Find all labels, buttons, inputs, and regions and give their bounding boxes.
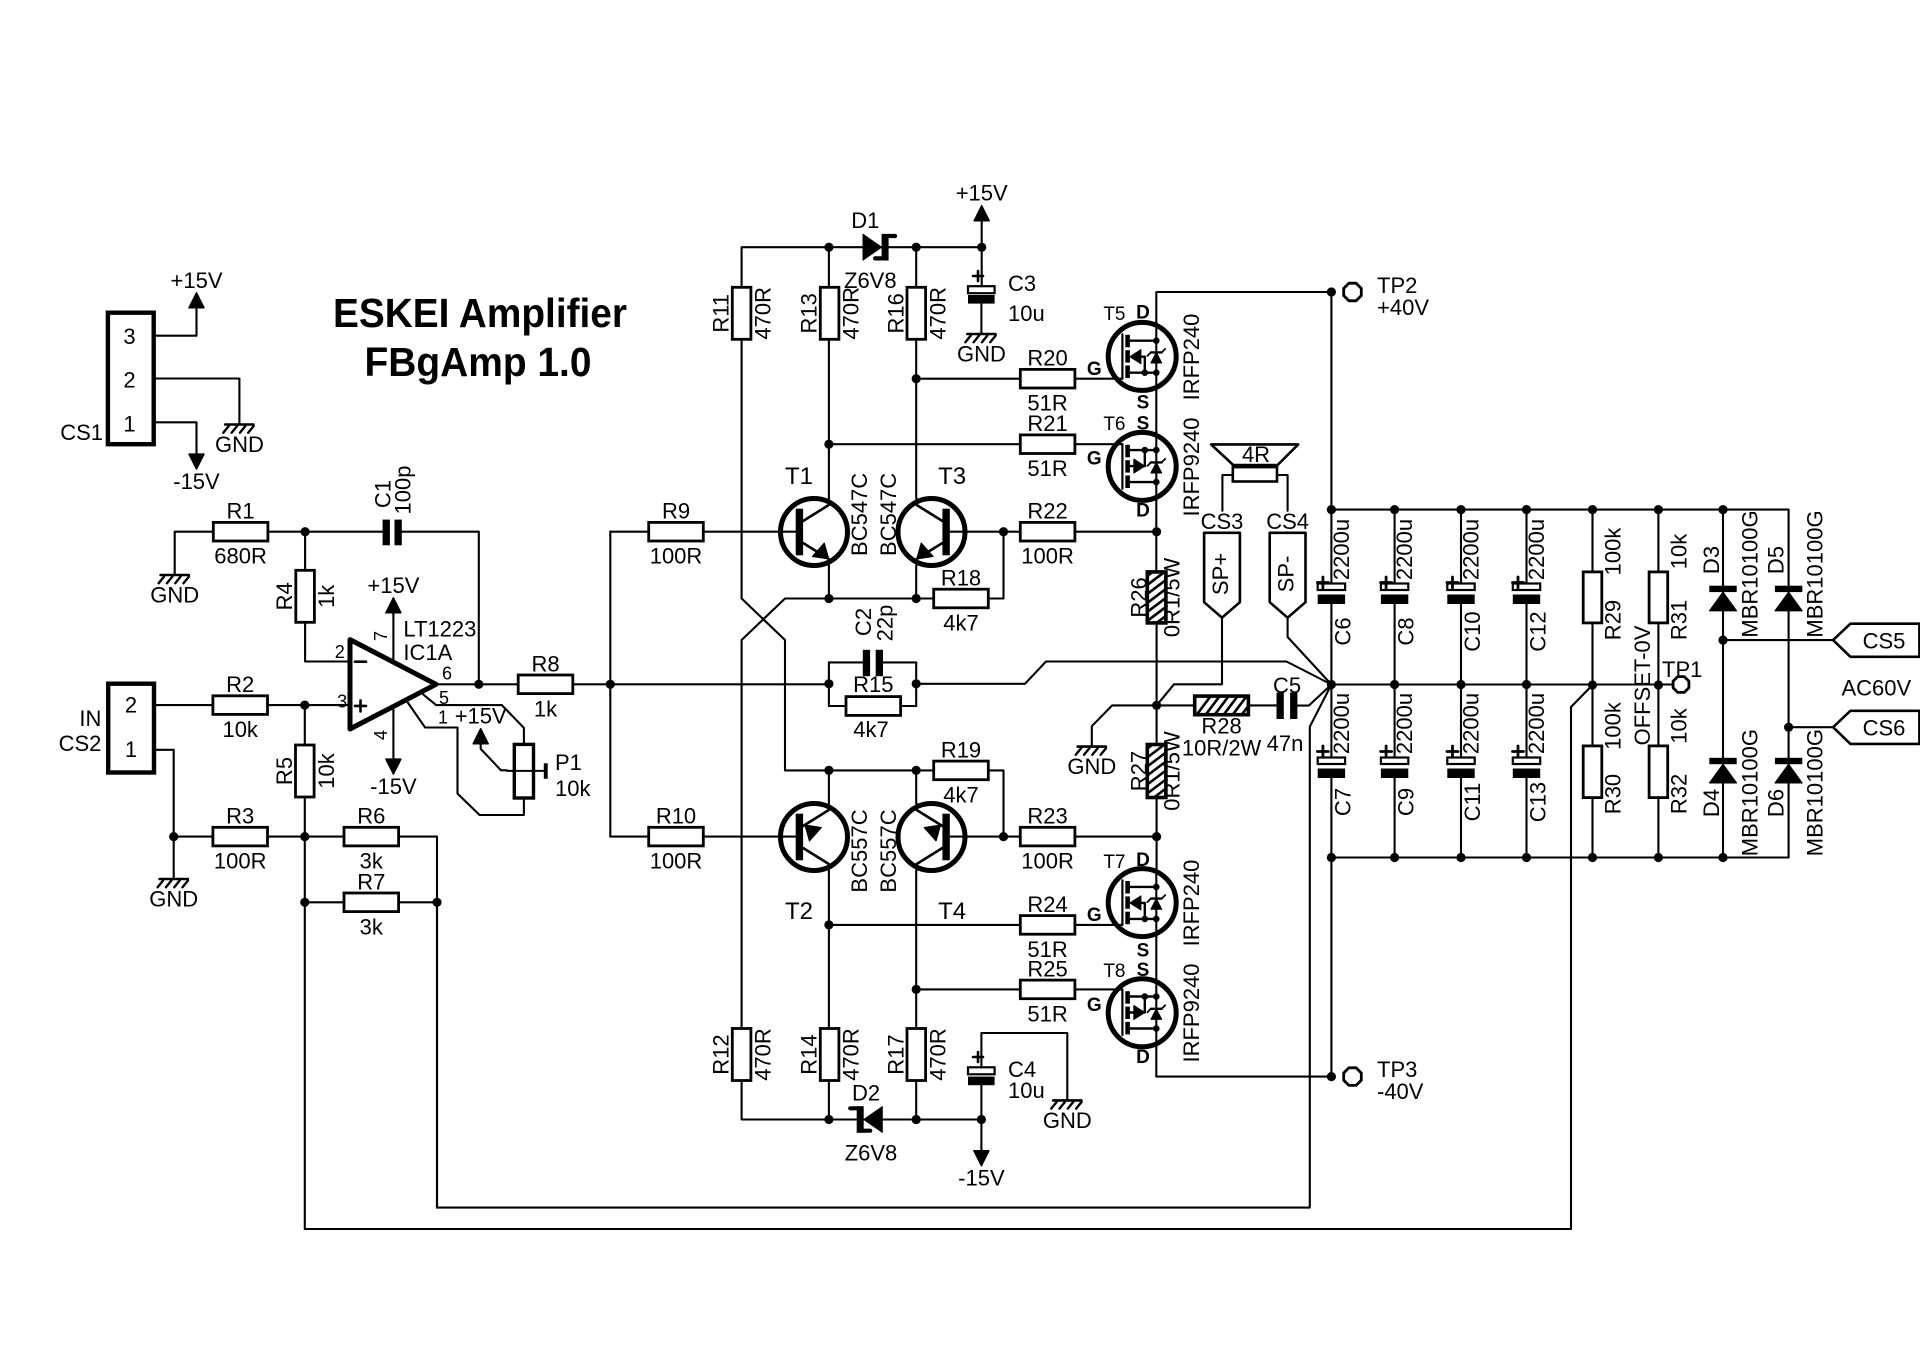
junction TP2 dot xyxy=(1327,287,1336,296)
resistor R5 xyxy=(272,745,339,797)
junction C7 bottom xyxy=(1327,853,1336,862)
svg-text:R23: R23 xyxy=(1027,804,1067,829)
svg-text:R32: R32 xyxy=(1666,774,1691,814)
junction C6 mid xyxy=(1327,680,1336,689)
svg-text:2200u: 2200u xyxy=(1329,693,1354,754)
svg-text:D: D xyxy=(1136,1047,1150,1068)
svg-text:OFFSET-0V: OFFSET-0V xyxy=(1630,625,1655,745)
wire T4 lower lead xyxy=(915,871,917,1029)
svg-text:D3: D3 xyxy=(1699,546,1724,574)
junction node L xyxy=(824,766,833,775)
wire rail to C3 xyxy=(981,247,983,286)
svg-text:100R: 100R xyxy=(1021,849,1074,874)
wire speaker right lead xyxy=(1277,475,1288,511)
svg-text:CS4: CS4 xyxy=(1266,509,1309,534)
test point TP3 xyxy=(1344,1057,1424,1104)
svg-text:100k: 100k xyxy=(1601,701,1626,750)
junction C10 top xyxy=(1456,505,1465,514)
svg-text:2: 2 xyxy=(335,642,345,662)
junction node O xyxy=(824,679,833,688)
wire R14 bottom xyxy=(828,1081,830,1120)
svg-text:G: G xyxy=(1087,359,1102,380)
svg-text:BC547C: BC547C xyxy=(847,473,872,556)
svg-text:CS6: CS6 xyxy=(1863,716,1906,741)
junction node J xyxy=(912,594,921,603)
junction node I xyxy=(824,594,833,603)
label BC547C T1 xyxy=(847,473,872,556)
capacitor C5 xyxy=(1267,673,1304,756)
wire +40V bus xyxy=(1331,509,1788,511)
wire SP+ to output junction xyxy=(1157,618,1222,706)
junction rail R17 xyxy=(912,1115,921,1124)
wire C3 to GND xyxy=(980,304,982,333)
wire node D to R3 xyxy=(174,836,213,838)
svg-text:C3: C3 xyxy=(1008,271,1036,296)
wire R18 right up xyxy=(989,532,1004,599)
wire node F vertical xyxy=(609,532,611,837)
op-amp U1 IC1A LT1223 xyxy=(335,616,477,740)
resistor R29 xyxy=(1583,527,1625,641)
svg-text:2200u: 2200u xyxy=(1524,519,1549,580)
svg-text:MBR10100G: MBR10100G xyxy=(1803,729,1828,856)
resistor R12 xyxy=(709,1028,776,1081)
svg-text:LT1223: LT1223 xyxy=(403,616,476,641)
svg-text:2200u: 2200u xyxy=(1524,693,1549,754)
resistor R24 xyxy=(1020,892,1075,962)
junction R29 bus xyxy=(1588,505,1597,514)
svg-text:R22: R22 xyxy=(1027,499,1067,524)
svg-text:2200u: 2200u xyxy=(1329,519,1354,580)
wire R7 right lead xyxy=(399,901,437,903)
wire R29 top xyxy=(1591,510,1593,572)
svg-text:R4: R4 xyxy=(272,582,297,610)
label AC60V xyxy=(1841,676,1911,701)
svg-text:1: 1 xyxy=(123,412,135,437)
svg-text:G: G xyxy=(1087,995,1102,1016)
wire node B to R5 xyxy=(304,705,306,745)
capacitor C10 2200u xyxy=(1447,510,1485,685)
wire R4 to op-amp pin2 xyxy=(305,623,349,662)
svg-text:GND: GND xyxy=(1067,754,1116,779)
wire collector row xyxy=(785,769,933,771)
svg-text:C8: C8 xyxy=(1394,617,1419,645)
svg-text:C5: C5 xyxy=(1273,673,1301,698)
wire R21 wire xyxy=(829,443,1020,445)
wire T2 collector xyxy=(828,770,830,803)
junction rail C4 xyxy=(977,1115,986,1124)
wire emitter row xyxy=(785,597,933,599)
svg-text:BC557C: BC557C xyxy=(847,809,872,892)
svg-text:FBgAmp 1.0: FBgAmp 1.0 xyxy=(365,339,592,385)
wire upper feedback riser xyxy=(436,902,438,1207)
svg-text:R8: R8 xyxy=(531,651,559,676)
capacitor C4 xyxy=(968,1052,1045,1103)
resistor R19 xyxy=(934,737,989,807)
ground xyxy=(957,334,1006,367)
svg-text:SP+: SP+ xyxy=(1208,553,1233,595)
wire CS1 pin2 to GND xyxy=(154,379,240,424)
svg-text:G: G xyxy=(1087,449,1102,470)
capacitor C7 2200u xyxy=(1317,685,1355,858)
junction C9 bottom xyxy=(1390,853,1399,862)
ground xyxy=(1043,1100,1092,1133)
wire R16 to T3 collector xyxy=(915,340,917,499)
resistor R8 xyxy=(518,651,573,721)
svg-text:2200u: 2200u xyxy=(1392,693,1417,754)
wire C2 R15 right xyxy=(915,662,917,706)
svg-text:51R: 51R xyxy=(1027,1001,1067,1026)
svg-text:+15V: +15V xyxy=(367,573,419,598)
junction node T xyxy=(1152,832,1161,841)
wire C4 top to GND xyxy=(981,1033,1067,1099)
resistor R17 xyxy=(883,1028,950,1081)
wire R15 branch b xyxy=(901,705,917,707)
junction R31 bus xyxy=(1654,505,1663,514)
wire node C down xyxy=(304,837,306,1229)
junction node D xyxy=(169,832,178,841)
transistor T2 BC557C xyxy=(781,804,848,926)
junction node H xyxy=(912,374,921,383)
svg-text:IC1A: IC1A xyxy=(403,640,452,665)
svg-text:D6: D6 xyxy=(1764,789,1789,817)
svg-text:S: S xyxy=(1137,960,1150,981)
wire T5 source to T6 source xyxy=(1155,390,1157,432)
svg-text:IRFP240: IRFP240 xyxy=(1179,860,1204,947)
wire P1 wiper +15V wire xyxy=(481,744,507,771)
resistor R21 xyxy=(1020,411,1075,481)
wire R23 to output column xyxy=(1075,836,1157,838)
svg-text:C10: C10 xyxy=(1460,611,1485,651)
resistor R22 xyxy=(1020,499,1075,569)
wire 0V mid bus xyxy=(1331,683,1672,685)
power -15V xyxy=(173,454,220,494)
capacitor C6 2200u xyxy=(1317,510,1355,685)
svg-text:1: 1 xyxy=(125,737,137,762)
junction node G xyxy=(824,440,833,449)
junction C10 mid xyxy=(1456,680,1465,689)
svg-text:Z6V8: Z6V8 xyxy=(845,1141,898,1166)
wire R27 to node T xyxy=(1156,798,1158,869)
wire op-amp pin5 to P1 top xyxy=(421,693,524,745)
label OFFSET-0V xyxy=(1630,625,1655,745)
capacitor C8 2200u xyxy=(1381,510,1419,685)
wire R31 top xyxy=(1657,510,1659,572)
wire T7 source to T8 source xyxy=(1155,937,1157,979)
svg-text:T5: T5 xyxy=(1103,304,1125,325)
svg-text:D4: D4 xyxy=(1699,789,1724,817)
wire R11 to T2 T4 collectors xyxy=(742,340,785,770)
svg-text:+15V: +15V xyxy=(956,181,1008,206)
junction node S xyxy=(1152,527,1161,536)
svg-text:2200u: 2200u xyxy=(1392,519,1417,580)
transistor T7 IRFP240 xyxy=(1087,850,1176,962)
junction D3 busb xyxy=(1718,853,1727,862)
svg-text:T4: T4 xyxy=(938,898,966,925)
wire op-amp pin1 to P1 bottom xyxy=(406,700,524,815)
junction node K xyxy=(999,527,1008,536)
wire C5 to node xyxy=(1297,685,1331,706)
svg-text:C7: C7 xyxy=(1330,788,1355,816)
svg-text:R5: R5 xyxy=(272,757,297,785)
ground xyxy=(1067,747,1116,780)
svg-text:D: D xyxy=(1136,501,1150,522)
svg-text:R17: R17 xyxy=(883,1034,908,1074)
svg-text:7: 7 xyxy=(371,631,391,641)
svg-text:C11: C11 xyxy=(1460,783,1485,822)
label IRFP240 T7 xyxy=(1179,860,1204,947)
wire long bottom feedback xyxy=(305,685,1593,1229)
wire SP- to output node xyxy=(1288,618,1332,685)
svg-text:4: 4 xyxy=(371,730,391,740)
wire R19 right down xyxy=(989,770,1004,836)
potentiometer P1 xyxy=(507,744,591,801)
junction C12 top xyxy=(1522,505,1531,514)
svg-text:C12: C12 xyxy=(1526,611,1551,651)
svg-text:T3: T3 xyxy=(938,463,966,490)
flag CS5 xyxy=(1833,624,1919,657)
svg-text:-15V: -15V xyxy=(173,469,220,494)
svg-text:CS5: CS5 xyxy=(1863,629,1906,654)
svg-text:IRFP9240: IRFP9240 xyxy=(1179,417,1204,516)
junction node M xyxy=(912,766,921,775)
svg-text:4R: 4R xyxy=(1242,442,1270,467)
capacitor C13 2200u xyxy=(1513,685,1551,858)
svg-text:IN: IN xyxy=(79,706,101,731)
junction C12 mid xyxy=(1522,680,1531,689)
transistor T5 IRFP240 xyxy=(1087,303,1176,414)
svg-text:100R: 100R xyxy=(1021,544,1074,569)
wire CS1 pin1 to -15V xyxy=(154,422,197,454)
junction C6 top xyxy=(1327,505,1336,514)
svg-text:R13: R13 xyxy=(797,293,822,333)
wire R25 wire xyxy=(916,988,1020,990)
wire R7 left lead xyxy=(305,901,344,903)
svg-text:R26: R26 xyxy=(1127,577,1152,617)
wire op-amp pin7 wire xyxy=(392,615,394,662)
wire to R10 xyxy=(610,836,648,838)
resistor R32 xyxy=(1649,707,1691,814)
svg-text:IRFP9240: IRFP9240 xyxy=(1179,963,1204,1062)
wire bottom rail xyxy=(742,1081,982,1120)
svg-text:R31: R31 xyxy=(1666,600,1691,640)
wire CS2 pin2 to R2 xyxy=(154,704,213,706)
zener diode D2 xyxy=(845,1081,898,1166)
wire R2 to op-amp pin3 xyxy=(268,704,350,706)
svg-text:T8: T8 xyxy=(1103,961,1125,982)
svg-text:S: S xyxy=(1137,393,1150,414)
transistor T8 IRFP9240 xyxy=(1087,960,1176,1068)
wire R32 bottom xyxy=(1657,798,1659,858)
title text xyxy=(333,290,627,385)
wire T3 emitter xyxy=(915,566,917,599)
junction R7 right junction xyxy=(432,898,441,907)
svg-text:D: D xyxy=(1136,303,1150,324)
wire R10 to T2 base xyxy=(703,836,795,838)
svg-text:10k: 10k xyxy=(1666,707,1691,743)
svg-text:T2: T2 xyxy=(785,898,813,925)
wire C2 branch xyxy=(829,661,863,663)
wire R17 bottom xyxy=(915,1081,917,1120)
wire T4 base to R23 xyxy=(949,836,1020,838)
zener diode D1 xyxy=(844,208,897,293)
label BC557C T2 xyxy=(847,809,872,892)
svg-text:22p: 22p xyxy=(873,605,898,642)
wire R21 to T6 gate xyxy=(1075,443,1123,445)
svg-text:R24: R24 xyxy=(1027,892,1067,917)
svg-text:470R: 470R xyxy=(925,1028,950,1081)
svg-text:R11: R11 xyxy=(709,294,734,333)
svg-text:T1: T1 xyxy=(785,463,813,490)
wire TP2 stub xyxy=(1330,292,1332,510)
power +15V xyxy=(956,181,1008,221)
svg-text:470R: 470R xyxy=(839,1028,864,1081)
resistor R23 xyxy=(1020,804,1075,874)
junction node F xyxy=(606,680,615,689)
svg-text:R16: R16 xyxy=(883,293,908,333)
wire GND to R1 xyxy=(175,532,214,574)
wire speaker left lead xyxy=(1222,475,1232,511)
junction R7 left junction xyxy=(300,898,309,907)
svg-text:TP1: TP1 xyxy=(1662,657,1702,682)
svg-text:1k: 1k xyxy=(534,696,558,721)
svg-text:10R/2W: 10R/2W xyxy=(1182,735,1262,760)
wire R9 to T1 base xyxy=(703,531,795,533)
connector CS2 xyxy=(59,684,154,773)
wire C1 to op-amp output xyxy=(402,532,479,685)
svg-text:S: S xyxy=(1137,941,1150,962)
svg-text:2: 2 xyxy=(123,368,135,393)
svg-text:R29: R29 xyxy=(1601,600,1626,640)
junction node P xyxy=(912,679,921,688)
wire R28 to C5 xyxy=(1248,704,1276,706)
svg-text:100R: 100R xyxy=(214,849,267,874)
svg-text:+15V: +15V xyxy=(455,704,507,729)
wire CS2 pin1 down xyxy=(154,750,174,837)
wire R20 to T5 gate xyxy=(1075,378,1123,380)
wire T4 collector xyxy=(915,770,917,803)
junction node R xyxy=(912,985,921,994)
flag CS3 SP+ xyxy=(1201,509,1244,618)
junction R32 busb xyxy=(1654,853,1663,862)
wire R1 to node A xyxy=(268,531,383,533)
wire T1 T3 emitters to R12 xyxy=(742,599,785,1029)
svg-text:CS1: CS1 xyxy=(60,420,103,445)
junction D3 bus xyxy=(1718,505,1727,514)
svg-text:2200u: 2200u xyxy=(1459,519,1484,580)
junction rail R14 xyxy=(824,1115,833,1124)
label BC557C T4 xyxy=(876,809,901,892)
svg-text:C13: C13 xyxy=(1526,782,1551,822)
wire R22 to output column xyxy=(1075,531,1157,533)
capacitor C1 xyxy=(371,466,416,546)
wire C4 bottom xyxy=(980,1085,982,1119)
svg-text:3: 3 xyxy=(337,692,347,712)
wire D3 column xyxy=(1722,510,1724,858)
wire R16 top xyxy=(915,247,917,286)
svg-text:470R: 470R xyxy=(751,1028,776,1081)
svg-text:R27: R27 xyxy=(1127,751,1152,791)
wire node to lower feedback xyxy=(437,685,1331,1208)
svg-text:-40V: -40V xyxy=(1377,1079,1424,1104)
svg-text:R10: R10 xyxy=(656,804,696,829)
svg-text:470R: 470R xyxy=(925,287,950,340)
svg-text:R19: R19 xyxy=(941,737,981,762)
diode D5 xyxy=(1764,510,1828,637)
svg-text:D2: D2 xyxy=(852,1081,880,1106)
resistor R7 xyxy=(344,869,399,939)
junction C11 bottom xyxy=(1456,853,1465,862)
wire T1 emitter xyxy=(828,566,830,599)
resistor R16 xyxy=(883,287,950,340)
test point TP2 xyxy=(1344,273,1430,320)
svg-text:GND: GND xyxy=(215,432,264,457)
wire R13 top xyxy=(828,247,830,286)
connector CS1 xyxy=(60,313,153,445)
svg-text:+40V: +40V xyxy=(1377,295,1429,320)
wire R15 branch xyxy=(829,705,846,707)
junction C13 bottom xyxy=(1522,853,1531,862)
svg-text:1: 1 xyxy=(438,708,448,728)
resistor R18 xyxy=(934,566,989,636)
junction node N xyxy=(999,832,1008,841)
resistor R14 xyxy=(797,1028,864,1081)
svg-text:-15V: -15V xyxy=(958,1166,1005,1191)
wire C2 branch b xyxy=(883,661,916,663)
power -15V xyxy=(370,759,417,799)
power +15V xyxy=(455,704,507,744)
resistor R6 xyxy=(344,804,399,874)
wire R24 wire xyxy=(829,924,1020,926)
resistor R2 xyxy=(213,672,268,742)
resistor R10 xyxy=(649,804,704,874)
svg-text:10u: 10u xyxy=(1008,1078,1045,1103)
junction rail R13 xyxy=(824,243,833,252)
junction node A xyxy=(301,527,310,536)
transistor T3 BC547C xyxy=(898,463,966,566)
svg-text:100R: 100R xyxy=(650,544,703,569)
junction rail R16 xyxy=(912,243,921,252)
junction node Q xyxy=(824,920,833,929)
svg-text:AC60V: AC60V xyxy=(1841,676,1911,701)
resistor R20 xyxy=(1020,346,1075,416)
resistor R15 xyxy=(846,672,901,742)
junction C8 top xyxy=(1390,505,1399,514)
diode D3 xyxy=(1699,510,1763,637)
svg-text:R25: R25 xyxy=(1027,956,1067,981)
capacitor C3 xyxy=(968,271,1045,326)
svg-text:SP-: SP- xyxy=(1274,556,1299,593)
svg-text:R30: R30 xyxy=(1601,774,1626,814)
junction C8 mid xyxy=(1390,680,1399,689)
svg-text:G: G xyxy=(1087,905,1102,926)
svg-text:CS3: CS3 xyxy=(1201,509,1244,534)
svg-text:P1: P1 xyxy=(555,750,582,775)
wire node D to GND xyxy=(173,837,175,878)
wire op-amp pin4 wire xyxy=(392,707,394,759)
wire T3 base to R22 xyxy=(949,531,1020,533)
wire R25 to T8 gate xyxy=(1075,988,1123,990)
resistor R30 xyxy=(1583,701,1625,814)
wire junction to GND xyxy=(1092,705,1157,745)
diode D4 xyxy=(1699,729,1763,856)
capacitor C2 xyxy=(851,605,898,677)
svg-text:R12: R12 xyxy=(709,1034,734,1074)
wire CS6 wire xyxy=(1789,726,1834,728)
resistor R13 xyxy=(797,287,864,340)
wire CS5 wire xyxy=(1723,639,1833,641)
svg-text:CS2: CS2 xyxy=(59,731,102,756)
power resistor R28 xyxy=(1182,696,1274,760)
